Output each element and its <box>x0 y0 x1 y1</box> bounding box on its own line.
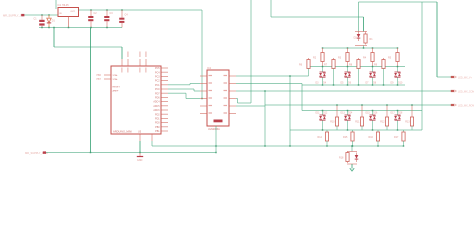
IC3 bottom pin x=140 <box>139 134 141 141</box>
junction gnd subrail <box>90 27 92 29</box>
wire riser 302 top <box>301 84 303 86</box>
wire rail2 <box>308 66 405 68</box>
svg-text:LED_MX_ROW: LED_MX_ROW <box>458 104 474 107</box>
resistor r3 R14 <box>318 132 329 141</box>
IC3 right pin PD7 <box>161 92 168 94</box>
junction rail5 r2 <box>411 104 413 106</box>
wire rail4 long <box>236 90 451 92</box>
junction rail8 <box>352 145 354 147</box>
wire gnd long vertical <box>90 28 92 153</box>
wire pair2 bottom <box>372 121 374 131</box>
svg-text:PC2: PC2 <box>155 81 160 83</box>
svg-text:PB0: PB0 <box>155 127 160 129</box>
wire rail6 <box>302 110 422 112</box>
IC3 top pin x=122 <box>121 59 123 66</box>
wire rail1 <box>323 47 398 49</box>
svg-text:D16: D16 <box>373 113 378 115</box>
wire top net vertical <box>270 0 272 17</box>
wire net2 to IC2 <box>238 102 252 104</box>
junction rail3 c <box>372 84 374 86</box>
wire r2 bottom <box>411 126 413 130</box>
svg-text:GND: GND <box>137 159 143 162</box>
junction IC2 gnd <box>215 152 217 154</box>
connector X1 pin <box>21 14 24 16</box>
LED pair row1 D3/D4 <box>316 72 327 85</box>
wire gnd to mcu pin <box>121 47 123 59</box>
LED pair row1 D7/D8 <box>366 72 377 85</box>
IC3 right pin ADC5 <box>161 105 168 107</box>
wire IC2 pin4 out <box>236 98 238 100</box>
junction gnd subrail <box>41 27 43 29</box>
resistor R8 <box>349 58 360 69</box>
junction rail5 r2 <box>361 104 363 106</box>
wire IC2 pin4 jog <box>237 99 239 104</box>
IC2 right pin y=83.5 <box>229 83 236 85</box>
svg-text:MR_SUPPLY_9V: MR_SUPPLY_9V <box>3 13 23 17</box>
svg-text:PD2: PD2 <box>155 114 160 116</box>
svg-text:PB1: PB1 <box>155 131 160 133</box>
junction gnd subrail <box>68 27 70 29</box>
IC3 right pin PC4 <box>161 71 168 73</box>
IC2 left pin y=106 <box>200 105 207 107</box>
wire top net horizontal <box>271 16 364 18</box>
IC2 left pin y=113.5 <box>200 113 207 115</box>
junction rail6 <box>322 110 324 112</box>
LED pair row2 D17/D18 <box>391 113 404 121</box>
IC3 right pin PC2 <box>161 80 168 82</box>
capacitor C2 <box>88 10 97 28</box>
svg-text:R16: R16 <box>369 136 374 139</box>
wire bottom split bar <box>347 151 357 153</box>
resistor R7 <box>324 58 335 69</box>
wire gnd to mcu <box>54 46 122 48</box>
wire pair2 bottom <box>397 121 399 131</box>
svg-text:R12: R12 <box>380 121 385 124</box>
wire mcu-ic2 a2 <box>189 84 191 85</box>
junction rail8 <box>403 145 405 147</box>
LED D19 <box>355 153 359 163</box>
svg-text:PC5: PC5 <box>155 68 160 70</box>
wire r3 top <box>326 130 328 132</box>
wire rail3 <box>302 84 405 86</box>
IC3 right pin PB1 <box>161 130 168 132</box>
svg-text:IC2: IC2 <box>207 66 212 70</box>
IC3 right pin PD1 <box>161 117 168 119</box>
wire pair1 bottom <box>347 78 349 86</box>
LED pair row2 D11/D12 <box>316 113 329 121</box>
regulator GND pin stub <box>68 17 70 28</box>
resistor R18 <box>339 152 349 164</box>
wire long vertical 422 <box>421 2 423 130</box>
resistor r3 R16 <box>369 132 380 141</box>
IC2 right pin y=91 <box>229 90 236 92</box>
svg-text:LED_MX_V+: LED_MX_V+ <box>458 76 472 79</box>
resistor r2 R12 <box>380 105 388 126</box>
IC3 left pin PB7 <box>104 78 111 80</box>
wire r3 bottom <box>352 141 354 146</box>
wire mcu gnd <box>139 141 141 153</box>
resistor r2 R13 <box>405 105 413 126</box>
wire rail7 left <box>290 129 327 131</box>
wire IC2 gnd <box>215 126 217 153</box>
junction +5V IC2 pin <box>201 98 203 100</box>
wire pair1 bottom <box>322 78 324 86</box>
resistor r3 R15 <box>343 132 354 141</box>
junction riser 290 <box>289 75 291 77</box>
resistor r2 R11 <box>355 105 363 126</box>
wire +5V down to IC2 <box>201 10 203 99</box>
LED pair row1 D5/D6 <box>341 72 352 85</box>
LED pair row2 D13/D14 <box>341 113 354 121</box>
IC3 top pin x=140 <box>139 59 141 66</box>
junction riser265 rail8 <box>264 145 266 147</box>
resistor R5 <box>388 48 399 67</box>
wire to flag1 <box>437 76 451 78</box>
IC2 right pin y=98.5 <box>229 98 236 100</box>
resistor R4 <box>363 48 374 67</box>
svg-text:R11: R11 <box>355 121 360 124</box>
junction rail1 <box>322 47 324 49</box>
svg-text:R17: R17 <box>394 136 399 139</box>
junction rail8 <box>377 145 379 147</box>
IC2 right pin y=113.5 <box>229 113 236 115</box>
LED pair row2 D15/D16 <box>366 113 379 121</box>
svg-text:ADC4: ADC4 <box>153 101 160 104</box>
junction rail3 c <box>322 84 324 86</box>
IC3 top pin x=128 <box>127 59 129 66</box>
IC3 right pin PC1 <box>161 84 168 86</box>
IC3 left pin PB6 <box>104 74 111 76</box>
wire +5V rail <box>79 9 203 11</box>
wire pair1 top <box>372 67 374 73</box>
junction +5V C4 <box>121 9 123 11</box>
wire pair1 bottom <box>397 78 399 86</box>
svg-text:D17: D17 <box>391 113 396 115</box>
capacitor C1 (polarized) <box>34 15 45 28</box>
wire gnd drop <box>53 28 55 48</box>
wire pair1 top <box>347 67 349 73</box>
junction rail5 r2 <box>386 104 388 106</box>
wire r3 top <box>403 130 405 132</box>
IC2 right pin y=76 <box>229 75 236 77</box>
wire pair2 top <box>372 111 374 116</box>
wire bottom cell top <box>351 146 353 152</box>
wire riser 265 <box>264 91 266 146</box>
wire top sense drop <box>358 2 360 32</box>
wire bottom cell down <box>351 164 353 169</box>
junction bottom cell <box>351 145 353 147</box>
junction rail2 c <box>347 66 349 68</box>
microcontroller IC3 body <box>111 66 161 134</box>
wire feed split bar <box>355 31 367 33</box>
junction gnd vert <box>90 152 92 154</box>
svg-text:D15: D15 <box>366 113 371 115</box>
LED D1A <box>357 32 361 42</box>
wire IC2 to subR1 <box>236 75 309 77</box>
IC2 left pin y=76 <box>200 75 207 77</box>
junction rail2 c <box>322 66 324 68</box>
wire mcu-ic2 c1 <box>168 92 186 94</box>
resistor r3 R17 <box>394 132 405 141</box>
svg-text:PB6: PB6 <box>97 75 102 77</box>
driver IC2 body <box>207 70 229 126</box>
svg-text:R14: R14 <box>318 136 323 139</box>
junction rail6 <box>372 110 374 112</box>
svg-text:IC1 78L05: IC1 78L05 <box>58 4 70 7</box>
wire r3 bottom <box>403 141 405 146</box>
wire top stub <box>55 0 57 9</box>
IC3 right pin PD0 <box>161 122 168 124</box>
junction rail5 r2 <box>336 104 338 106</box>
wire mcu-ic2 c2 <box>185 93 187 98</box>
svg-text:D14: D14 <box>348 113 353 115</box>
wire matrix feed <box>363 17 365 32</box>
wire net146 rail8 <box>152 145 404 147</box>
junction rail4 riser265 <box>264 90 266 92</box>
junction VIN C1 <box>41 14 43 16</box>
resistor R9 <box>374 58 385 69</box>
IC3 right pin PC0 <box>161 88 168 90</box>
IC3 right pin PD6 <box>161 96 168 98</box>
resistor R2 <box>313 48 324 67</box>
IC3 bottom pin x=152 <box>151 134 153 141</box>
junction +5V C2 <box>90 9 92 11</box>
wire riser 290 <box>289 76 291 146</box>
wire mcu-ic2 b2 <box>193 89 195 91</box>
IC3 right pin ADC6 <box>161 109 168 111</box>
net label above pin x=140 <box>139 52 142 58</box>
wire IC2 to riser 302 <box>236 83 302 85</box>
svg-text:RESET: RESET <box>113 87 121 89</box>
wire subR bottom <box>358 69 360 86</box>
junction rail3 c <box>347 84 349 86</box>
wire r3 top <box>377 130 379 132</box>
junction gnd subrail <box>53 27 55 29</box>
wire pair2 top <box>322 111 324 116</box>
junction rail8 <box>326 145 328 147</box>
resistor R3 <box>338 48 349 67</box>
svg-text:D12: D12 <box>323 113 328 115</box>
junction VIN D1 <box>48 14 50 16</box>
junction riser290 rail8 <box>289 145 291 147</box>
IC2 pad <box>214 120 223 123</box>
wire feed to rail1 <box>363 46 365 49</box>
wire pair1 top <box>397 67 399 73</box>
svg-text:ADC6: ADC6 <box>153 109 160 112</box>
wire gnd subrail <box>39 27 122 29</box>
capacitor C4 <box>119 10 128 28</box>
svg-text:D13: D13 <box>341 113 346 115</box>
wire pair1 bottom <box>372 78 374 86</box>
junction rail3 s <box>383 84 385 86</box>
net label above pin x=128 <box>127 52 130 58</box>
svg-text:R15: R15 <box>343 136 348 139</box>
wire gnd rail bottom <box>46 152 216 154</box>
IC2 right pin y=106 <box>229 105 236 107</box>
IC3 right pin PC3 <box>161 75 168 77</box>
svg-text:PD6: PD6 <box>155 98 160 100</box>
svg-text:PD1: PD1 <box>155 119 160 121</box>
junction rail3 s <box>358 84 360 86</box>
wire mcu-ic2 c3 <box>186 98 200 100</box>
resistor r2 R10 <box>330 105 338 126</box>
wire r2 bottom <box>336 126 338 130</box>
LED pair row1 D9/D10 <box>391 72 404 85</box>
junction gnd subrail <box>48 27 50 29</box>
wire mcu-ic2 b1 <box>168 88 194 90</box>
svg-text:PC1: PC1 <box>155 85 160 87</box>
junction IC2 net146 <box>215 145 217 147</box>
wire subR1 bottom <box>308 69 310 77</box>
wire rail7 <box>327 129 422 131</box>
junction rail1 feed <box>363 47 365 49</box>
svg-text:R10: R10 <box>330 121 335 124</box>
wire pair2 top <box>397 111 399 116</box>
junction rail1 <box>347 47 349 49</box>
wire pair2 top <box>347 111 349 116</box>
wire VIN <box>25 14 59 16</box>
ground symbol GND1 <box>137 153 143 163</box>
IC3 right pin ADC4 <box>161 101 168 103</box>
svg-text:PC0: PC0 <box>155 89 160 91</box>
junction rail2 c <box>372 66 374 68</box>
wire feed join bar <box>355 45 367 47</box>
wire left riser 302 <box>301 85 303 111</box>
junction rail1 <box>397 47 399 49</box>
wire mcu pin to net146 <box>151 141 153 146</box>
junction gnd subrail <box>106 27 108 29</box>
junction rail1 <box>372 47 374 49</box>
IC3 right pin PD2 <box>161 113 168 115</box>
junction rail6 <box>347 110 349 112</box>
svg-text:PD0: PD0 <box>155 123 160 125</box>
svg-text:AREF: AREF <box>113 90 119 93</box>
capacitor C3 <box>104 10 113 28</box>
IC3 right pin PB0 <box>161 126 168 128</box>
net label above pin x=146 <box>145 52 148 58</box>
resistor R1 <box>364 32 373 45</box>
IC2 left pin y=98.5 <box>200 98 207 100</box>
svg-text:XTAL: XTAL <box>113 78 119 81</box>
junction rail3 c <box>397 84 399 86</box>
wire r2 bottom <box>361 126 363 130</box>
junction rail7 <box>397 129 399 131</box>
svg-text:PC3: PC3 <box>155 77 160 79</box>
wire r2 bottom <box>386 126 388 130</box>
IC3 right pin PC5 <box>161 67 168 69</box>
wire pair2 bottom <box>347 121 349 131</box>
svg-text:D10: D10 <box>398 83 403 85</box>
wire subR bottom <box>333 69 335 86</box>
diode D1 <box>47 15 56 28</box>
IC3 top pin x=146 <box>145 59 147 66</box>
junction +5V C3 <box>106 9 108 11</box>
net flag 2 <box>451 90 454 92</box>
svg-text:LED_MX_COM: LED_MX_COM <box>458 90 474 93</box>
net flag 3 <box>451 104 454 106</box>
junction rail7 <box>347 129 349 131</box>
wire end arrow <box>350 168 354 171</box>
wire mcu-ic2 a1 <box>168 84 190 86</box>
svg-text:PD7: PD7 <box>155 93 160 95</box>
IC2 left pin y=83.5 <box>200 83 207 85</box>
resistor R6 <box>299 58 310 69</box>
svg-text:R13: R13 <box>405 121 410 124</box>
svg-text:D18: D18 <box>398 113 403 115</box>
svg-text:XTAL: XTAL <box>113 74 119 77</box>
svg-text:ADC5: ADC5 <box>153 105 160 108</box>
wire r3 top <box>352 130 354 132</box>
junction rail3 s <box>333 84 335 86</box>
net flag 1 <box>451 76 454 78</box>
svg-text:ULN2003A: ULN2003A <box>208 128 220 131</box>
junction rail2 c <box>397 66 399 68</box>
wire mcu-ic2 b3 <box>194 90 200 92</box>
junction rail6 <box>397 110 399 112</box>
wire net2 vertical <box>250 0 252 103</box>
wire bottom join bar <box>347 163 357 165</box>
wire pair1 top <box>322 67 324 73</box>
connector X2 pin <box>43 151 46 153</box>
wire pair2 bottom <box>322 121 324 131</box>
wire rail5 long <box>265 104 451 106</box>
wire mcu-ic2 a3 <box>190 83 200 85</box>
svg-text:PC4: PC4 <box>155 72 160 74</box>
junction gnd rail mcu <box>139 152 141 154</box>
svg-text:ARDUINO_MINI: ARDUINO_MINI <box>113 130 132 134</box>
wire subR bottom <box>383 69 385 86</box>
wire r3 bottom <box>326 141 328 146</box>
IC2 left pin y=91 <box>200 90 207 92</box>
wire IC2 pin5 <box>236 105 265 107</box>
svg-text:PB7: PB7 <box>97 79 102 81</box>
junction rail7 <box>322 129 324 131</box>
wire r3 bottom <box>377 141 379 146</box>
voltage regulator IC1 <box>58 4 79 17</box>
wire right net down <box>436 2 438 77</box>
svg-text:R18: R18 <box>339 157 344 160</box>
wire top sense horizontal <box>359 1 438 3</box>
junction rail7 <box>372 129 374 131</box>
